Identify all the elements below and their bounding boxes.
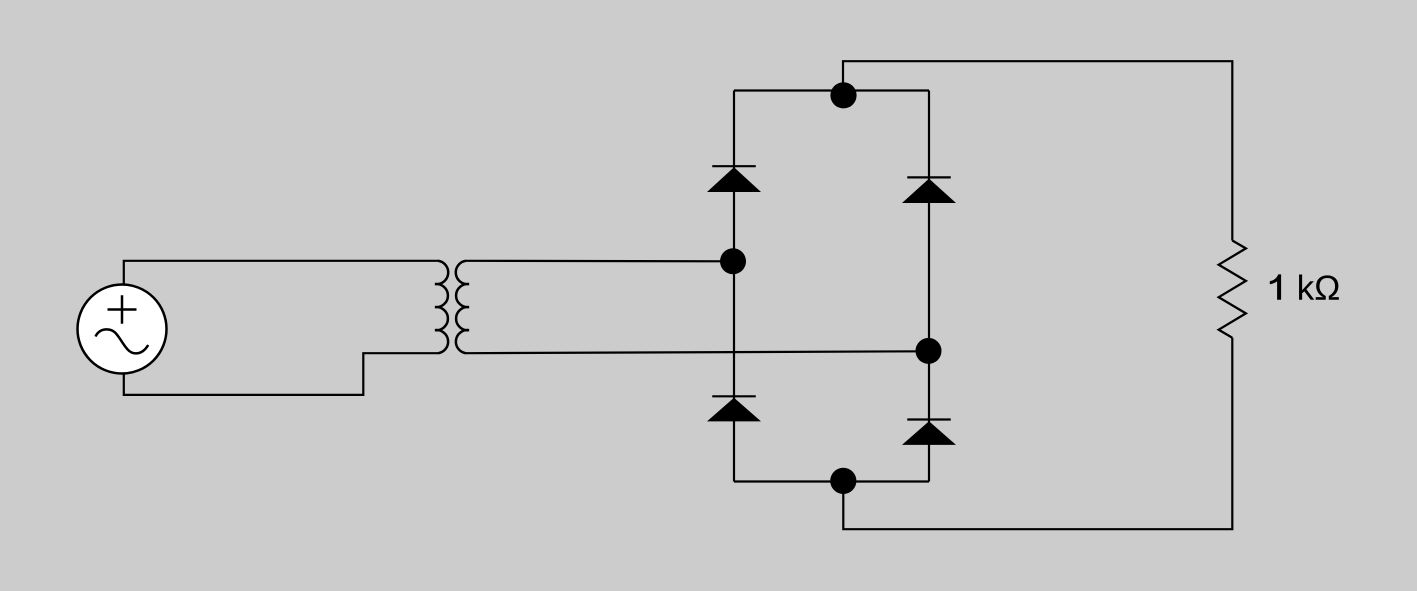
wire [734,89,929,91]
wire [124,353,438,395]
node bottom junction [830,468,856,494]
diode top-right [902,177,956,203]
diode bottom-right [902,420,956,445]
diode bottom-left [707,396,761,421]
transformer secondary coil [456,261,469,353]
wire [843,338,1232,529]
transformer primary coil [435,261,448,353]
diode top-left [707,166,761,192]
wire [843,61,1232,240]
node left junction [720,248,746,274]
wire [733,91,735,482]
wire [466,260,733,263]
wire [124,261,438,285]
resistor 1 kOhm [1219,241,1246,338]
wire [734,480,929,482]
node right junction [916,338,942,364]
label 1 kOhm [1270,274,1339,299]
wire [466,351,929,353]
wire [928,91,930,482]
node top junction [830,82,856,108]
AC source [78,285,167,374]
